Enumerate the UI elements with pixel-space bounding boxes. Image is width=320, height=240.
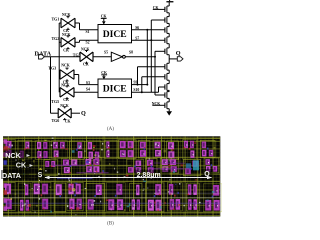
svg-text:S2: S2 [86, 41, 90, 45]
svg-text:(A): (A) [107, 127, 114, 132]
svg-text:NCK: NCK [62, 13, 70, 17]
svg-text:S1: S1 [86, 30, 90, 34]
svg-text:S5: S5 [104, 50, 108, 54]
svg-text:TG3: TG3 [48, 65, 56, 70]
svg-text:CK: CK [16, 161, 27, 170]
svg-text:NCK: NCK [81, 47, 89, 51]
svg-text:TG5: TG5 [73, 52, 81, 57]
svg-text:CK: CK [83, 63, 89, 67]
svg-text:NCK: NCK [61, 64, 69, 68]
svg-text:CK: CK [63, 98, 69, 102]
svg-text:CK: CK [63, 48, 69, 52]
svg-text:S3: S3 [86, 81, 90, 85]
svg-text:DICE: DICE [103, 29, 127, 40]
svg-text:NCK: NCK [60, 104, 68, 108]
svg-text:S10: S10 [133, 88, 139, 92]
svg-text:CK: CK [101, 71, 107, 75]
svg-text:Q: Q [176, 50, 181, 57]
svg-text:CK: CK [101, 14, 107, 18]
svg-text:TG6: TG6 [52, 118, 60, 123]
svg-text:TG2: TG2 [52, 36, 60, 41]
svg-text:DICE: DICE [103, 84, 127, 95]
svg-text:S: S [38, 172, 43, 179]
svg-text:S6: S6 [135, 26, 139, 30]
svg-text:S8: S8 [129, 50, 133, 54]
svg-text:Q: Q [81, 110, 86, 117]
svg-text:NCK: NCK [61, 84, 69, 88]
svg-text:NCK: NCK [62, 33, 70, 37]
svg-text:(B): (B) [107, 222, 114, 227]
svg-text:TG5: TG5 [51, 99, 59, 104]
svg-text:DATA: DATA [2, 171, 21, 180]
svg-text:TG1: TG1 [52, 16, 60, 21]
svg-text:NCK: NCK [5, 151, 21, 160]
svg-text:CK: CK [65, 120, 71, 124]
svg-text:S4: S4 [86, 88, 90, 92]
